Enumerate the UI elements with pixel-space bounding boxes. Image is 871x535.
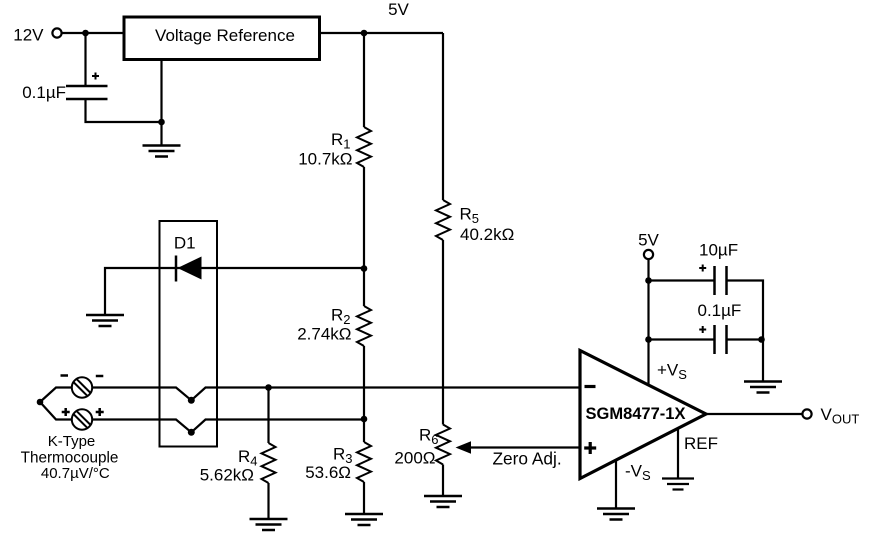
svg-text:200Ω: 200Ω bbox=[394, 449, 435, 468]
ground bypass caps bbox=[744, 382, 782, 393]
wire vref output to 5V rail bbox=[321, 32, 443, 34]
ground under R6 bbox=[424, 496, 462, 507]
junction ground node bbox=[158, 119, 165, 126]
svg-text:0.1µF: 0.1µF bbox=[698, 301, 742, 320]
thermocouple minus mark left bbox=[61, 374, 69, 377]
ground under vref bbox=[143, 146, 181, 157]
capacitor C2 0.1uF plates bbox=[715, 325, 727, 354]
wire 5V to R5 bbox=[442, 33, 444, 200]
wire R4 top bbox=[267, 388, 269, 444]
svg-text:SGM8477-1X: SGM8477-1X bbox=[586, 405, 686, 423]
ground under R4 bbox=[250, 519, 288, 530]
junction R1/D1/R2 bbox=[361, 265, 368, 272]
wire C-in bottom to ground node bbox=[86, 99, 162, 122]
op-amp minus input mark bbox=[585, 385, 596, 388]
resistor R3 bbox=[357, 442, 371, 482]
ground -Vs bbox=[597, 509, 635, 520]
wire R6 to ground bbox=[442, 465, 444, 497]
voltage reference U1 box bbox=[124, 17, 320, 60]
wire R3 to ground bbox=[363, 482, 365, 514]
svg-text:5.62kΩ: 5.62kΩ bbox=[200, 466, 254, 485]
op-amp plus input mark bbox=[584, 442, 596, 454]
wire plus input (lower) bbox=[92, 420, 364, 433]
wire op-amp output bbox=[706, 413, 802, 415]
wire R1 to diode node bbox=[363, 167, 365, 306]
svg-text:12V: 12V bbox=[13, 25, 44, 44]
thermocouple upper junction circle bbox=[72, 377, 92, 397]
junction cold junction lower bbox=[188, 429, 195, 436]
thermocouple left junction bbox=[37, 399, 44, 406]
wiper arrowhead bbox=[456, 441, 472, 453]
diode D1 cathode bar bbox=[175, 256, 178, 282]
wire to 10uF cap bbox=[649, 279, 715, 281]
resistor R2 bbox=[357, 306, 371, 346]
svg-text:10.7kΩ: 10.7kΩ bbox=[298, 150, 352, 169]
wire 10uF to right rail bbox=[727, 281, 764, 382]
wire thermocouple upper lead bbox=[40, 388, 72, 403]
ground REF bbox=[662, 479, 694, 490]
svg-text:Voltage Reference: Voltage Reference bbox=[155, 26, 295, 45]
svg-text:D1: D1 bbox=[174, 233, 196, 252]
thermocouple plus mark left bbox=[62, 408, 70, 416]
wire R2 to R3 bbox=[363, 346, 365, 442]
svg-text:2.74kΩ: 2.74kΩ bbox=[297, 325, 351, 344]
ground under R3 bbox=[345, 514, 383, 525]
junction R2/R3/+wire bbox=[361, 416, 368, 423]
resistor R5 bbox=[436, 200, 450, 240]
junction 12V/C-in bbox=[82, 30, 89, 37]
capacitor C1 polarity plus bbox=[699, 265, 706, 272]
svg-text:10µF: 10µF bbox=[699, 240, 738, 259]
svg-text:0.1µF: 0.1µF bbox=[22, 83, 66, 102]
wire R4 to ground bbox=[267, 483, 269, 519]
wire vref ground pin bbox=[160, 59, 162, 146]
node VOUT terminal bbox=[802, 409, 811, 418]
op-amp REF pin wire bbox=[677, 428, 679, 478]
node 12V terminal bbox=[52, 28, 61, 37]
svg-text:40.7µV/°C: 40.7µV/°C bbox=[41, 465, 110, 482]
op-amp +Vs pin wire bbox=[647, 259, 649, 385]
svg-text:Zero Adj.: Zero Adj. bbox=[493, 449, 562, 469]
op-amp U2 triangle bbox=[580, 351, 706, 479]
wire 0.1uF to right rail bbox=[727, 338, 762, 340]
wire wiper to op-amp plus input bbox=[468, 446, 580, 448]
junction R4 tap bbox=[265, 384, 272, 391]
junction 5V rail / R1 bbox=[361, 30, 368, 37]
junction right rail bbox=[758, 336, 765, 343]
ground diode left bbox=[86, 315, 124, 326]
junction cold junction upper bbox=[188, 397, 195, 404]
wire minus input (upper) bbox=[92, 388, 580, 401]
svg-text:5V: 5V bbox=[388, 0, 409, 19]
capacitor C2 polarity plus bbox=[699, 326, 706, 333]
wire 12V to voltage reference bbox=[62, 32, 123, 34]
capacitor C-in 0.1uF plates bbox=[66, 86, 108, 99]
node 5V supply terminal bbox=[644, 250, 653, 259]
diode D1 triangle bbox=[178, 257, 202, 280]
resistor R1 bbox=[357, 127, 371, 167]
wire to input capacitor bbox=[84, 33, 86, 86]
capacitor C-in polarity plus bbox=[92, 73, 99, 80]
thermocouple lower junction circle bbox=[72, 409, 92, 429]
wire to 0.1uF cap bbox=[649, 338, 715, 340]
svg-text:40.2kΩ: 40.2kΩ bbox=[460, 225, 514, 244]
wire 5V to R1 bbox=[363, 33, 365, 127]
svg-text:53.6Ω: 53.6Ω bbox=[305, 463, 351, 482]
resistor R4 bbox=[262, 443, 276, 483]
D1 isothermal box bbox=[160, 221, 218, 447]
thermocouple minus mark right bbox=[96, 375, 104, 378]
junction 10uF branch bbox=[645, 277, 652, 284]
junction 0.1uF branch bbox=[645, 336, 652, 343]
svg-text:REF: REF bbox=[684, 434, 718, 453]
resistor R6 potentiometer bbox=[436, 425, 450, 465]
thermocouple plus mark right bbox=[96, 408, 104, 416]
wire diode anode to ground leg bbox=[105, 268, 364, 315]
svg-text:Thermocouple: Thermocouple bbox=[21, 449, 119, 466]
capacitor C1 10uF plates bbox=[715, 266, 727, 295]
svg-text:K-Type: K-Type bbox=[48, 433, 96, 450]
svg-text:5V: 5V bbox=[638, 231, 659, 250]
op-amp -Vs pin wire bbox=[615, 460, 617, 509]
wire thermocouple lower lead bbox=[40, 402, 72, 420]
wire R5 to R6 bbox=[442, 240, 444, 425]
